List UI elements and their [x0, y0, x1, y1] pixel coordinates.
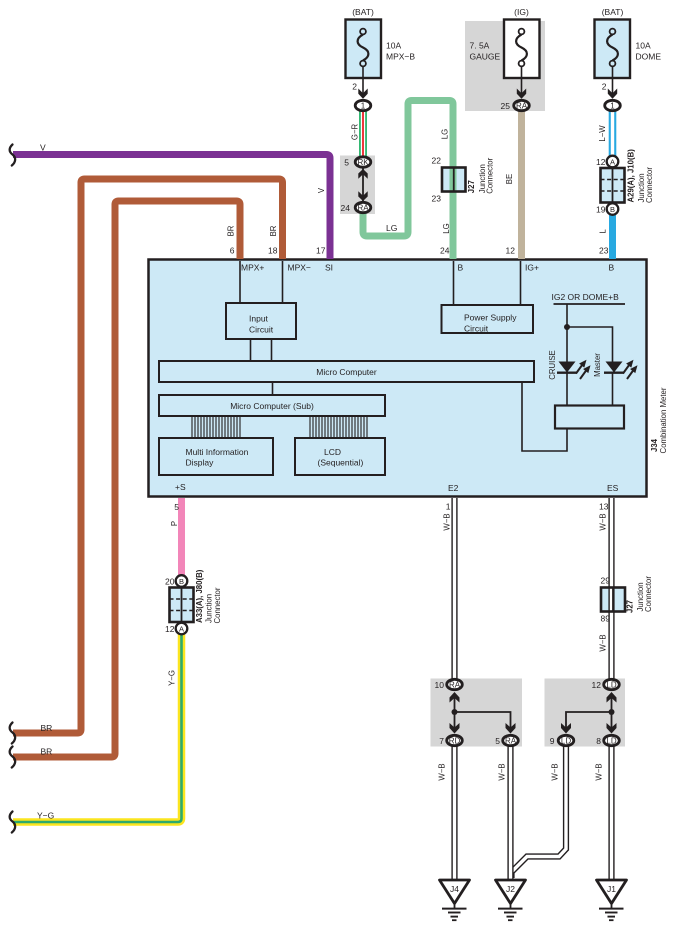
svg-text:BR: BR	[269, 225, 278, 236]
wire junction to master branch	[567, 327, 613, 362]
svg-text:RA: RA	[505, 737, 517, 746]
fuse F2 element symbol	[516, 35, 527, 61]
svg-text:18: 18	[268, 246, 278, 256]
wire LG loop from RA to pin24 B	[363, 101, 453, 260]
LED Master D2	[604, 360, 638, 379]
svg-text:Combination Meter: Combination Meter	[659, 387, 668, 453]
arrow into connector 1 (F1)	[358, 89, 367, 99]
svg-text:LD: LD	[606, 681, 616, 690]
main box labels	[175, 263, 668, 494]
svg-text:BR: BR	[227, 225, 236, 236]
svg-text:Multi Information: Multi Information	[186, 447, 249, 457]
svg-text:RA: RA	[357, 204, 369, 213]
wire G-R fuse to RK: green casing	[359, 104, 367, 162]
svg-text:A: A	[610, 158, 615, 167]
wire BE (beige) GAUGE to pin12 IG+	[518, 104, 525, 259]
svg-text:J27: J27	[626, 600, 635, 613]
LED CRUISE D1	[557, 360, 591, 379]
multi information display box	[159, 438, 273, 475]
svg-text:6: 6	[230, 246, 235, 256]
power supply circuit box	[442, 305, 534, 333]
wire IG2 bus down to junction	[566, 304, 568, 362]
wire fuse F1 to pin 2	[362, 66, 364, 95]
svg-text:Master: Master	[593, 353, 602, 377]
svg-text:10A: 10A	[386, 41, 401, 51]
gray shade bottom-left relay block	[431, 679, 523, 747]
svg-text:J34: J34	[650, 438, 659, 452]
connector RA pin10	[447, 679, 463, 689]
svg-text:W−B: W−B	[498, 763, 507, 780]
wire W-B E2 pin1 down to relay	[455, 498, 612, 879]
svg-text:12: 12	[165, 624, 175, 634]
svg-text:2: 2	[352, 82, 357, 92]
svg-text:BR: BR	[41, 747, 53, 757]
svg-text:BE: BE	[505, 174, 514, 184]
junction connector J27 (W-B right)	[601, 576, 653, 624]
svg-text:L: L	[599, 229, 608, 234]
ground J4	[440, 880, 470, 920]
svg-text:Connector: Connector	[486, 157, 495, 193]
bus comb right	[310, 416, 367, 438]
svg-text:W−B: W−B	[595, 763, 604, 780]
svg-text:17: 17	[316, 246, 326, 256]
svg-text:Junction: Junction	[204, 594, 213, 623]
svg-text:+S: +S	[175, 482, 186, 492]
connector oval 1 (F1)	[355, 100, 371, 110]
wire L-W fuse DOME to A29 pin A	[609, 104, 617, 158]
arrow into connector 1 (F3)	[608, 89, 617, 99]
svg-text:1: 1	[610, 102, 615, 111]
svg-text:V: V	[317, 187, 326, 193]
svg-text:MPX+: MPX+	[241, 263, 264, 273]
svg-text:LG: LG	[441, 129, 450, 139]
svg-text:Y−G: Y−G	[168, 670, 177, 686]
svg-text:5: 5	[174, 502, 179, 512]
svg-text:MPX−B: MPX−B	[386, 52, 415, 62]
break V wire	[10, 145, 16, 166]
fuse F2 body	[504, 20, 540, 79]
wire BR inner to pin6 MPX+	[13, 201, 240, 757]
connector RD pin7	[447, 735, 463, 745]
svg-text:J27: J27	[467, 180, 476, 193]
svg-text:P: P	[170, 521, 179, 526]
gray shade behind RK/RA connector pair	[340, 156, 375, 215]
node dot	[609, 709, 615, 715]
svg-text:Connector: Connector	[213, 587, 222, 623]
combination meter main box J34	[149, 260, 647, 497]
svg-text:B: B	[609, 263, 615, 273]
svg-text:25: 25	[501, 101, 511, 111]
svg-text:23: 23	[432, 194, 442, 204]
svg-text:MPX−: MPX−	[288, 263, 311, 273]
wire Y-G from A33 pin A to break	[13, 631, 182, 822]
connector RK pin5	[355, 157, 371, 167]
svg-text:Micro Computer: Micro Computer	[316, 367, 377, 377]
svg-text:IG2 OR DOME+B: IG2 OR DOME+B	[552, 292, 620, 302]
wire MPX+ pin6 to input circuit	[239, 261, 241, 303]
wire IG+ pin12 to power supply	[520, 261, 522, 305]
wire W-B from LD9 to ground J2 (jog)	[512, 745, 567, 878]
wire cruise LED cathode to drive box	[566, 373, 568, 406]
wire LD12 to LD8	[611, 696, 613, 728]
node dot	[452, 709, 458, 715]
arrow down into RD7	[450, 723, 460, 734]
svg-text:Input: Input	[249, 314, 269, 324]
connector LD pin9	[558, 735, 574, 745]
svg-text:1: 1	[446, 502, 451, 512]
wire micro computer to sub	[272, 382, 274, 395]
svg-text:24: 24	[341, 203, 351, 213]
svg-text:(Sequential): (Sequential)	[318, 458, 364, 468]
gray shade behind GAUGE fuse	[465, 21, 545, 111]
pin B circle	[607, 203, 619, 215]
arrow up into RK	[358, 169, 367, 179]
svg-text:A33(A), J80(B): A33(A), J80(B)	[195, 569, 204, 623]
wire W-B from RD7 to ground J4	[451, 745, 457, 879]
wire V (violet) from break to pin17 SI	[13, 155, 330, 260]
svg-text:Micro Computer (Sub): Micro Computer (Sub)	[230, 401, 314, 411]
svg-text:19: 19	[596, 205, 606, 215]
svg-text:Y−G: Y−G	[37, 811, 54, 821]
LCD sequential box	[295, 438, 385, 475]
svg-text:Display: Display	[186, 458, 215, 468]
ground J1	[597, 880, 627, 920]
pin B circle	[176, 575, 188, 587]
svg-text:LD: LD	[561, 737, 571, 746]
svg-text:W−B: W−B	[438, 763, 447, 780]
svg-text:10: 10	[435, 680, 445, 690]
svg-text:LG: LG	[442, 223, 451, 233]
connector oval 1 (F3)	[605, 100, 621, 110]
svg-text:RA: RA	[516, 102, 528, 111]
svg-text:24: 24	[440, 246, 450, 256]
svg-text:B: B	[179, 577, 184, 586]
svg-text:B: B	[610, 205, 615, 214]
svg-text:A29(A), J10(B): A29(A), J10(B)	[627, 149, 636, 203]
break Y-G	[10, 812, 16, 833]
svg-text:E2: E2	[448, 483, 459, 493]
wire BR outer to pin18 MPX-	[13, 179, 283, 733]
connector RA pin5	[503, 735, 519, 745]
svg-text:W−B: W−B	[599, 634, 608, 651]
connector oval RA pin 25	[514, 100, 530, 110]
wire RA10 to RD7	[454, 696, 456, 728]
LED drive box	[555, 406, 624, 429]
svg-text:BR: BR	[41, 723, 53, 733]
svg-text:2: 2	[602, 82, 607, 92]
connector LD pin8	[604, 735, 620, 745]
svg-text:1: 1	[361, 102, 366, 111]
svg-text:10A: 10A	[636, 41, 651, 51]
svg-text:ES: ES	[607, 483, 619, 493]
junction node dot	[564, 324, 570, 330]
fuse F1 10A MPX-B (BAT)	[346, 7, 416, 111]
fuse F1 body	[346, 20, 382, 79]
arrow up into RA10	[450, 692, 460, 703]
connector LD pin12	[604, 679, 620, 689]
break BR inner	[10, 747, 16, 768]
wire RK to RA connector pair	[362, 168, 364, 202]
junction connector A33(A) J80(B)	[165, 569, 222, 634]
svg-text:LCD: LCD	[324, 447, 341, 457]
fuse F3 10A DOME (BAT)	[595, 7, 662, 111]
arrow down into LD9	[561, 723, 571, 734]
svg-text:LG: LG	[386, 223, 397, 233]
wire B pin24 to power supply	[453, 261, 455, 305]
bus comb left	[192, 416, 240, 438]
micro computer sub box	[159, 395, 385, 416]
svg-text:29: 29	[601, 576, 611, 586]
wire fuse F2 to pin 25	[521, 66, 523, 95]
junction connector J27 (LG)	[432, 156, 495, 204]
svg-text:22: 22	[432, 156, 442, 166]
wire W-B from E2 pin1 to relay RA10	[451, 498, 457, 679]
ground J2	[496, 880, 526, 920]
fuse F3 body	[595, 20, 631, 79]
svg-text:(BAT): (BAT)	[602, 7, 624, 17]
input circuit box U-IN	[226, 303, 296, 339]
micro computer box	[159, 361, 534, 382]
wire W-B from LD8 to ground J1	[608, 745, 614, 879]
svg-text:SI: SI	[325, 263, 333, 273]
fuse F3 element symbol	[607, 35, 618, 61]
svg-text:7: 7	[439, 736, 444, 746]
svg-text:12: 12	[506, 246, 516, 256]
svg-text:J2: J2	[506, 884, 515, 894]
break BR outer	[10, 723, 16, 744]
svg-text:RK: RK	[357, 158, 369, 167]
fuse F1 element symbol	[358, 35, 369, 61]
svg-text:J4: J4	[450, 884, 459, 894]
svg-text:Connector: Connector	[645, 167, 654, 203]
wire W-B from RA5 to ground J2	[507, 745, 513, 879]
wire W-B from ES pin13 through J27 to relay LD12	[608, 498, 614, 679]
svg-text:13: 13	[599, 502, 609, 512]
svg-text:9: 9	[550, 736, 555, 746]
svg-text:G−R: G−R	[350, 124, 359, 141]
svg-text:5: 5	[495, 736, 500, 746]
fuse F2 7.5A GAUGE (IG)	[470, 7, 540, 111]
svg-text:B: B	[458, 263, 464, 273]
pin A circle	[176, 623, 188, 635]
wire master LED cathode to drive box	[612, 373, 614, 406]
svg-text:A: A	[179, 625, 184, 634]
svg-text:J1: J1	[607, 884, 616, 894]
arrow up into LD12	[607, 692, 617, 703]
wire branch to RA5	[455, 712, 511, 728]
wire MPX- pin18 to input circuit	[282, 261, 284, 303]
svg-text:89: 89	[601, 614, 611, 624]
svg-text:8: 8	[596, 736, 601, 746]
pin A circle	[607, 156, 619, 168]
svg-text:L−W: L−W	[598, 125, 607, 142]
svg-text:(BAT): (BAT)	[352, 7, 374, 17]
svg-text:IG+: IG+	[525, 263, 539, 273]
svg-text:12: 12	[596, 157, 606, 167]
junction connector A29(A) J10(B)	[596, 149, 654, 215]
svg-text:RA: RA	[449, 681, 461, 690]
svg-text:(IG): (IG)	[514, 7, 529, 17]
svg-text:CRUISE: CRUISE	[548, 350, 557, 379]
svg-text:RD: RD	[449, 737, 461, 746]
svg-text:W−B: W−B	[443, 513, 452, 530]
arrow down into LD8	[607, 723, 617, 734]
svg-text:W−B: W−B	[551, 763, 560, 780]
connector RA pin24	[355, 202, 371, 212]
svg-text:23: 23	[599, 246, 609, 256]
svg-text:Power Supply: Power Supply	[464, 313, 517, 323]
wire P (pink) +S pin5 to A33 pin B	[178, 498, 185, 578]
wire drive box to micro computer	[522, 382, 567, 451]
svg-text:12: 12	[592, 680, 602, 690]
svg-text:W−B: W−B	[599, 513, 608, 530]
svg-text:V: V	[40, 143, 46, 153]
wire fuse F3 to pin 2	[612, 66, 614, 95]
svg-text:Circuit: Circuit	[249, 325, 274, 335]
svg-text:Circuit: Circuit	[464, 324, 489, 334]
arrow down into RA5	[506, 723, 516, 734]
arrow down into RA	[358, 191, 367, 201]
svg-text:20: 20	[165, 577, 175, 587]
wire L from A29 pin B to pin23 B	[609, 212, 616, 259]
svg-text:7. 5A: 7. 5A	[470, 41, 490, 51]
wire branch to LD9	[566, 712, 612, 728]
wire input to micro computer	[250, 339, 252, 361]
svg-text:DOME: DOME	[636, 52, 662, 62]
gray shade bottom-right relay block	[545, 679, 626, 747]
svg-text:GAUGE: GAUGE	[470, 52, 501, 62]
node IG2 OR DOME+B bus line	[554, 303, 626, 305]
svg-text:LD: LD	[606, 737, 616, 746]
svg-text:5: 5	[344, 158, 349, 168]
arrow into connector RA (F2)	[517, 89, 526, 99]
svg-text:Connector: Connector	[644, 576, 653, 612]
